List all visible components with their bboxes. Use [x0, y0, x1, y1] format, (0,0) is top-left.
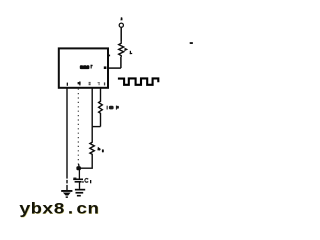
node + polarity mark — [121, 17, 123, 20]
svg-text:ybx8.cn: ybx8.cn — [19, 201, 99, 219]
pin 5 number label — [89, 82, 91, 85]
pin number mark near right corner — [104, 82, 105, 85]
wire (pin 7 lead into 10k resistor) — [100, 88, 102, 100]
pin 7 number label — [98, 82, 100, 85]
stray mark (small dash, top right) — [190, 42, 193, 44]
wire (load node up to RL bottom) — [120, 57, 122, 68]
pin 4 number label — [78, 81, 81, 85]
wire (R1 bottom to C1 node) — [79, 156, 92, 169]
wire (pin 5 dashed lead down to C1 node) — [77, 89, 79, 165]
resistor R1 — [90, 141, 94, 156]
ground (right, under C1) — [75, 189, 85, 197]
capacitor C1 — [73, 178, 83, 182]
node +V supply terminal (open circle) — [119, 23, 123, 27]
wire (junction pin6-pin7 horizontal) — [92, 126, 100, 128]
waveform output square wave — [118, 78, 158, 84]
value label 10k — [107, 106, 119, 110]
node junction dot at C1 — [76, 166, 81, 170]
wire (pin 6 lead down) — [91, 88, 93, 126]
wire (node down to C1 top plate) — [78, 168, 80, 179]
value label RL — [124, 48, 132, 54]
ground (left, pin 1) — [61, 190, 72, 198]
op-amp U1 (555 timer IC body) — [59, 48, 108, 87]
pin 3 tick (inside right edge) — [104, 66, 107, 69]
wire (10k bottom down) — [100, 115, 102, 127]
resistor RL — [119, 42, 124, 57]
wire (RL top to supply terminal) — [120, 28, 122, 42]
wire (C1 bottom to ground) — [79, 182, 81, 189]
wire (pin 1 lead down to ground) — [66, 88, 68, 190]
wire (pin 3 output to load node) — [108, 67, 121, 69]
value label 555 (blurred text inside IC) — [80, 65, 93, 70]
pin 8 nub (outside right edge) — [109, 55, 111, 57]
resistor 10k — [99, 100, 103, 115]
value label C1 — [82, 178, 91, 183]
value label R1 — [97, 147, 103, 153]
pin 1 number label — [67, 83, 68, 86]
wire (junction down into R1) — [91, 127, 93, 141]
